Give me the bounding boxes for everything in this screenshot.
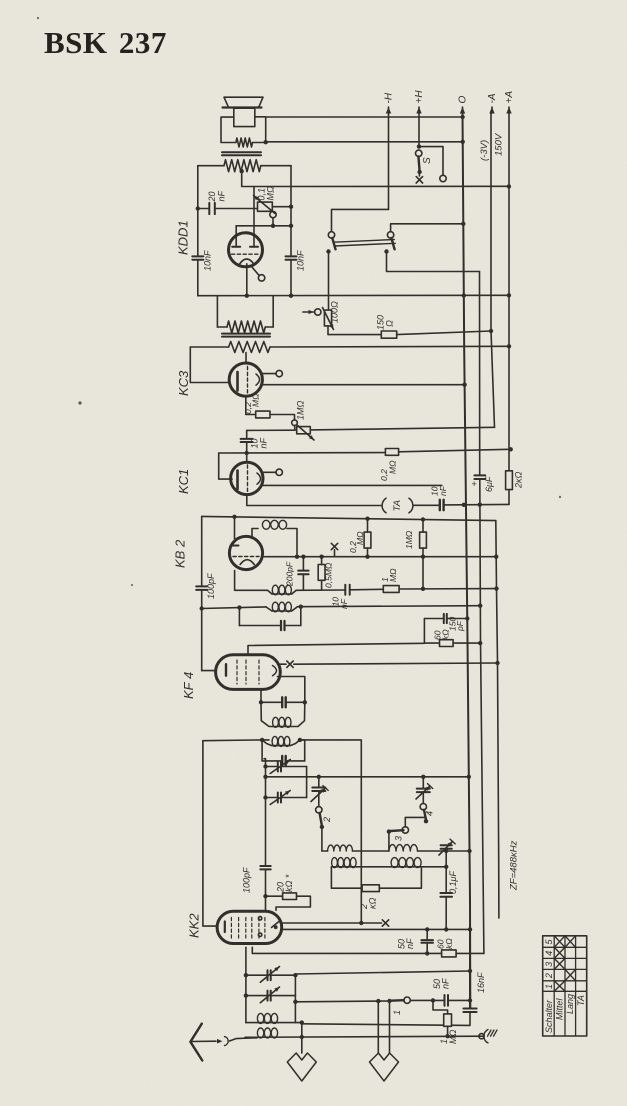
svg-text:200pF: 200pF bbox=[285, 561, 295, 587]
svg-text:nF: nF bbox=[441, 978, 451, 989]
svg-text:TA: TA bbox=[576, 995, 586, 1006]
svg-text:nF: nF bbox=[405, 938, 415, 949]
svg-text:KC1: KC1 bbox=[176, 469, 191, 494]
svg-text:MΩ: MΩ bbox=[388, 568, 398, 582]
svg-text:TA: TA bbox=[392, 500, 403, 511]
svg-text:MΩ: MΩ bbox=[388, 460, 398, 474]
svg-text:BSK 237: BSK 237 bbox=[44, 25, 167, 60]
svg-text:KB 2: KB 2 bbox=[173, 539, 188, 568]
svg-text:ZF=488κHz: ZF=488κHz bbox=[509, 840, 520, 891]
svg-text:KF 4: KF 4 bbox=[181, 672, 196, 699]
svg-text:4: 4 bbox=[425, 811, 435, 816]
svg-text:0,1μF: 0,1μF bbox=[448, 871, 458, 894]
svg-text:O: O bbox=[458, 96, 469, 104]
svg-text:kΩ *: kΩ * bbox=[284, 874, 294, 892]
svg-text:kΩ: kΩ bbox=[444, 938, 454, 949]
svg-text:100pF: 100pF bbox=[242, 867, 252, 893]
svg-text:+A: +A bbox=[504, 91, 515, 104]
svg-text:-A: -A bbox=[487, 93, 498, 103]
svg-text:2: 2 bbox=[544, 973, 554, 979]
svg-text:KDD1: KDD1 bbox=[176, 220, 191, 255]
svg-text:+: + bbox=[472, 479, 477, 489]
svg-text:16nF: 16nF bbox=[476, 972, 486, 993]
svg-text:0,5MΩ: 0,5MΩ bbox=[324, 562, 334, 588]
svg-text:nF: nF bbox=[438, 485, 448, 496]
svg-text:4: 4 bbox=[544, 951, 554, 956]
svg-text:2κΩ: 2κΩ bbox=[514, 471, 524, 489]
svg-text:MΩ: MΩ bbox=[251, 393, 261, 407]
svg-text:1: 1 bbox=[544, 984, 554, 989]
svg-text:1MΩ: 1MΩ bbox=[296, 400, 306, 420]
svg-text:20: 20 bbox=[207, 191, 217, 202]
svg-text:Schalter: Schalter bbox=[544, 999, 554, 1033]
svg-text:3: 3 bbox=[544, 962, 554, 967]
svg-text:Mittel: Mittel bbox=[555, 997, 565, 1020]
svg-text:100Ω: 100Ω bbox=[330, 301, 340, 323]
svg-text:1MΩ: 1MΩ bbox=[404, 530, 414, 549]
svg-text:nF: nF bbox=[259, 437, 269, 448]
svg-text:Ω: Ω bbox=[385, 320, 395, 327]
svg-text:1: 1 bbox=[392, 1010, 402, 1015]
svg-text:100pF: 100pF bbox=[206, 573, 216, 599]
svg-text:3: 3 bbox=[394, 836, 404, 841]
svg-text:MΩ: MΩ bbox=[355, 531, 365, 545]
svg-text:-H: -H bbox=[384, 92, 395, 103]
svg-text:+H: +H bbox=[414, 90, 425, 104]
svg-text:S: S bbox=[422, 157, 433, 164]
svg-text:pF: pF bbox=[455, 620, 465, 632]
svg-text:10nF: 10nF bbox=[203, 250, 213, 271]
svg-text:nF: nF bbox=[217, 190, 227, 201]
svg-text:Lang: Lang bbox=[565, 994, 575, 1014]
svg-text:150V: 150V bbox=[494, 132, 505, 156]
svg-text:2: 2 bbox=[322, 817, 332, 823]
svg-text:KK2: KK2 bbox=[187, 913, 202, 938]
svg-text:κΩ: κΩ bbox=[368, 898, 378, 910]
svg-text:6μF: 6μF bbox=[484, 476, 494, 492]
svg-text:MΩ: MΩ bbox=[266, 186, 276, 200]
svg-text:10nF: 10nF bbox=[296, 250, 306, 271]
svg-text:(-3V): (-3V) bbox=[479, 140, 490, 161]
svg-text:nF: nF bbox=[339, 598, 349, 609]
svg-text:KC3: KC3 bbox=[176, 370, 191, 396]
